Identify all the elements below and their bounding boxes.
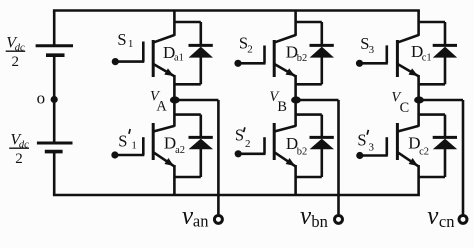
svg-text:v: v [427, 203, 439, 230]
svg-text:2: 2 [245, 138, 251, 150]
svg-text:3: 3 [369, 44, 375, 56]
svg-text:c1: c1 [422, 52, 432, 63]
svg-text:C: C [400, 100, 410, 116]
svg-text:1: 1 [128, 38, 133, 50]
svg-text:S: S [357, 131, 366, 150]
svg-text:2: 2 [12, 54, 20, 70]
svg-text:an: an [193, 212, 209, 231]
svg-text:S: S [117, 30, 126, 49]
svg-text:3: 3 [369, 141, 375, 153]
svg-text:B: B [277, 99, 287, 115]
svg-text:o: o [37, 88, 46, 107]
svg-text:b2: b2 [297, 146, 308, 157]
svg-text:c2: c2 [419, 147, 429, 158]
svg-text:A: A [156, 98, 167, 114]
svg-text:S: S [235, 125, 244, 144]
svg-text:2: 2 [247, 44, 253, 56]
svg-text:a2: a2 [175, 145, 185, 156]
svg-text:a1: a1 [174, 52, 184, 63]
svg-text:v: v [300, 203, 312, 230]
svg-text:dc: dc [15, 43, 25, 54]
svg-text:bn: bn [311, 212, 328, 231]
svg-text:cn: cn [439, 212, 455, 231]
svg-text:1: 1 [131, 140, 137, 152]
svg-text:2: 2 [15, 151, 23, 167]
svg-text:dc: dc [19, 140, 29, 151]
svg-text:S: S [118, 132, 127, 151]
svg-text:b2: b2 [297, 53, 308, 64]
